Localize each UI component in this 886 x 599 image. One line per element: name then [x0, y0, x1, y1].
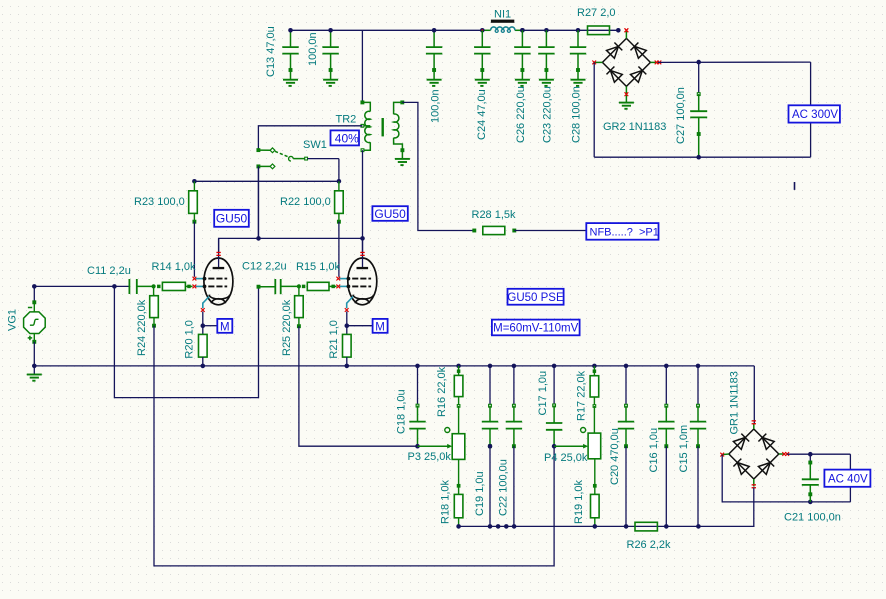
svg-text:R14 1,0k: R14 1,0k — [152, 261, 197, 273]
svg-text:C26 220,0u: C26 220,0u — [515, 86, 527, 143]
svg-text:C21 100,0n: C21 100,0n — [784, 512, 841, 524]
bridge rectifier GR2 — [602, 38, 650, 86]
capacitor C26 220,0u — [514, 30, 530, 86]
capacitor C27 100,0n — [675, 62, 707, 157]
potentiometer P3 25,0k — [408, 428, 465, 464]
wire GR1 bottom to rail — [753, 488, 755, 527]
resistor R28 1,5k — [472, 209, 517, 235]
svg-text:R17 22,0k: R17 22,0k — [576, 370, 588, 421]
svg-text:R27 2,0: R27 2,0 — [577, 7, 616, 19]
svg-text:C17 1,0u: C17 1,0u — [537, 371, 549, 416]
svg-text:100,0n: 100,0n — [430, 89, 442, 123]
resistor R27 2,0 — [577, 7, 616, 34]
wire GR1 right to AC — [787, 453, 850, 455]
label box AC 300V — [789, 105, 840, 122]
resistor R19 1,0k — [573, 459, 599, 527]
wire R25 to P3 node (bias V2) — [299, 326, 418, 446]
capacitor C19 1,0u — [482, 366, 498, 527]
capacitor C28 100,0n — [570, 30, 586, 86]
wire GR1 left loop — [722, 455, 810, 502]
input wire from VG1 — [34, 285, 129, 287]
bias rail dots — [415, 364, 420, 369]
capacitor C24 47,0u — [474, 30, 490, 86]
screen grid wire — [194, 180, 339, 182]
svg-text:R26 2,2k: R26 2,2k — [627, 539, 672, 551]
svg-text:R24 220,0k: R24 220,0k — [136, 299, 148, 356]
svg-text:NFB.....? >P1: NFB.....? >P1 — [590, 226, 659, 238]
label box NFB — [586, 223, 658, 240]
label box GU50 PSE — [508, 289, 564, 305]
svg-text:P4 25,0k: P4 25,0k — [544, 452, 588, 464]
svg-text:P3 25,0k: P3 25,0k — [408, 451, 452, 463]
label box GU50 left — [214, 210, 249, 227]
capacitor C12 2,2u — [242, 261, 299, 295]
label box M left — [217, 319, 232, 333]
svg-text:C15 1,0m: C15 1,0m — [678, 425, 690, 473]
wire R24 to P4 node (bias V1) — [154, 326, 554, 566]
resistor R20 1,0 — [184, 320, 208, 366]
svg-text:C27 100,0n: C27 100,0n — [675, 87, 687, 144]
wire TR2 secondary to NFB — [402, 102, 474, 230]
svg-text:M=60mV-110mV: M=60mV-110mV — [493, 323, 578, 335]
svg-text:R28 1,5k: R28 1,5k — [472, 209, 517, 221]
capacitor C18 1,0u — [396, 366, 426, 446]
resistor R26 2,2k — [627, 522, 672, 551]
label box M right — [373, 319, 388, 333]
svg-text:R21 1,0: R21 1,0 — [328, 320, 340, 359]
capacitor C20 470,0u — [618, 366, 634, 527]
label box AC 40V — [824, 470, 870, 487]
svg-text:100,0n: 100,0n — [307, 32, 319, 66]
svg-text:40%: 40% — [335, 131, 359, 145]
capacitor C23 220,0u — [538, 30, 554, 86]
resistor R24 220,0k — [136, 286, 158, 356]
svg-text:GU50: GU50 — [216, 212, 248, 226]
resistor R18 1,0k — [440, 459, 463, 526]
capacitor C22 100,0u — [506, 366, 522, 527]
svg-text:R15 1,0k: R15 1,0k — [296, 261, 341, 273]
top B+ rail — [291, 29, 483, 31]
signal source VG1 — [7, 286, 46, 366]
svg-text:M: M — [375, 321, 385, 333]
capacitor C15 1,0m — [690, 366, 706, 527]
resistor R22 100,0 — [280, 181, 343, 276]
svg-text:C20 470,0u: C20 470,0u — [609, 428, 621, 485]
V1 cathode wire — [202, 312, 204, 326]
resistor R16 22,0k — [436, 366, 463, 434]
svg-text:C13 47,0u: C13 47,0u — [265, 26, 277, 77]
tube V2 GU50 — [336, 238, 376, 312]
bias negative rail — [459, 525, 755, 527]
capacitor C17 1,0u — [537, 366, 562, 446]
top rail junction dots — [288, 28, 293, 33]
resistor R23 100,0 — [134, 181, 197, 276]
svg-text:AC 40V: AC 40V — [828, 474, 868, 486]
label box M=60mV-110mV — [492, 320, 580, 336]
svg-text:C28 100,0n: C28 100,0n — [571, 86, 583, 143]
svg-text:TR2: TR2 — [336, 114, 357, 126]
svg-text:R18 1,0k: R18 1,0k — [440, 479, 452, 524]
ground symbol at VG1 — [33, 366, 35, 375]
switch SW1 — [257, 126, 362, 239]
resistor R21 1,0 — [328, 320, 351, 366]
svg-text:VG1: VG1 — [7, 309, 19, 331]
wire GR2 left to bottom loop — [593, 62, 595, 157]
svg-text:C24 47,0u: C24 47,0u — [476, 89, 488, 140]
capacitor C21 100,0n — [784, 454, 841, 523]
svg-text:R20 1,0: R20 1,0 — [184, 320, 196, 359]
capacitor C16 1,0u — [658, 366, 674, 527]
wire input to C12 branch — [114, 286, 258, 397]
svg-text:GR1 1N1183: GR1 1N1183 — [729, 371, 741, 434]
wire ground rail to GR1 — [753, 366, 755, 424]
svg-text:R16 22,0k: R16 22,0k — [436, 366, 448, 417]
svg-text:C16 1,0u: C16 1,0u — [648, 428, 660, 473]
svg-text:C11 2,2u: C11 2,2u — [87, 265, 131, 277]
ground rail — [34, 365, 754, 367]
resistor R14 1,0k — [152, 261, 197, 291]
capacitor 100,0n (mid) — [426, 30, 442, 86]
capacitor C11 2,2u — [87, 265, 154, 294]
capacitor 100,0n (left) — [322, 30, 338, 86]
svg-text:AC 300V: AC 300V — [792, 109, 838, 121]
potentiometer P4 25,0k — [544, 428, 601, 465]
resistor R15 1,0k — [296, 261, 341, 291]
svg-text:R19 1,0k: R19 1,0k — [573, 479, 585, 524]
tube V1 GU50 — [193, 238, 233, 312]
svg-text:C18 1,0u: C18 1,0u — [396, 389, 408, 434]
capacitor C13 47,0u — [282, 30, 298, 86]
stray I mark — [794, 182, 796, 190]
svg-text:C23 220,0u: C23 220,0u — [542, 86, 554, 143]
svg-text:GR2 1N1183: GR2 1N1183 — [603, 121, 666, 133]
bridge rectifier GR1 — [729, 429, 779, 479]
wire GR2 right to AC loop — [658, 61, 811, 63]
svg-text:SW1: SW1 — [303, 139, 327, 151]
wire R28 to NFB box — [514, 230, 586, 232]
svg-text:R22 100,0: R22 100,0 — [280, 196, 331, 208]
resistor R17 22,0k — [576, 366, 599, 433]
svg-text:M: M — [220, 321, 230, 333]
plate wire — [219, 238, 363, 252]
transformer TR2 — [336, 30, 410, 165]
svg-text:C22 100,0u: C22 100,0u — [498, 459, 510, 516]
svg-text:GU50: GU50 — [374, 207, 406, 221]
svg-text:R25 220,0k: R25 220,0k — [281, 299, 293, 356]
svg-text:R23 100,0: R23 100,0 — [134, 196, 185, 208]
svg-text:GU50 PSE: GU50 PSE — [507, 292, 564, 304]
inductor NI1 — [482, 8, 522, 32]
label box GU50 right — [372, 206, 407, 221]
resistor R25 220,0k — [281, 286, 303, 356]
svg-text:C19 1,0u: C19 1,0u — [474, 471, 486, 516]
V2 cathode wire — [346, 312, 348, 326]
label box 40% — [331, 130, 360, 145]
svg-text:C12 2,2u: C12 2,2u — [242, 261, 287, 273]
svg-text:NI1: NI1 — [494, 8, 511, 20]
